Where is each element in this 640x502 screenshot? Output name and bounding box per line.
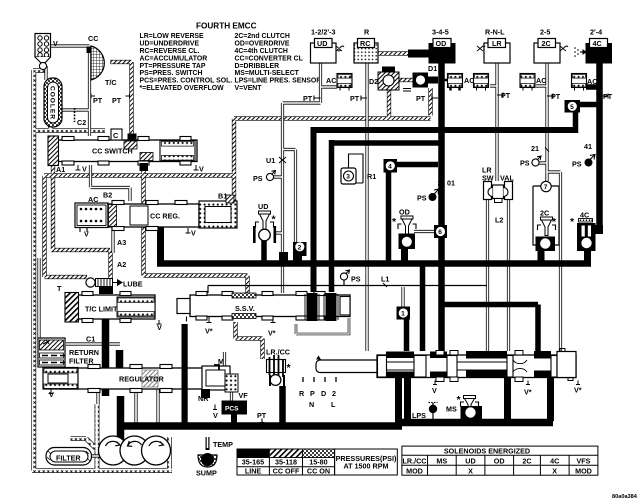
T/C limit top connector bbox=[99, 285, 113, 294]
svg-text:OD: OD bbox=[436, 39, 447, 48]
svg-text:UD=UNDERDRIVE: UD=UNDERDRIVE bbox=[140, 41, 200, 48]
svg-text:LPS=LINE PRES. SENSOR: LPS=LINE PRES. SENSOR bbox=[235, 78, 322, 85]
waist lines bbox=[387, 360, 527, 372]
dribbler D1 bbox=[403, 64, 438, 91]
svg-text:FOURTH EMCC: FOURTH EMCC bbox=[196, 22, 257, 31]
node 4 bbox=[384, 159, 398, 173]
overflow 4C bbox=[570, 211, 603, 252]
svg-text:REGULATOR: REGULATOR bbox=[119, 375, 165, 384]
overflow OD bbox=[392, 208, 416, 250]
svg-text:N: N bbox=[309, 400, 314, 409]
svg-text:LR./CC: LR./CC bbox=[403, 456, 427, 465]
wire thin casing bbox=[39, 46, 561, 456]
svg-text:V: V bbox=[199, 165, 204, 174]
PS L1 (open) bbox=[340, 270, 389, 287]
return filter bbox=[38, 338, 99, 367]
svg-text:T: T bbox=[57, 284, 62, 293]
svg-text:AC: AC bbox=[587, 77, 597, 86]
svg-text:PT: PT bbox=[551, 92, 561, 101]
body bbox=[108, 204, 199, 227]
svg-text:P: P bbox=[310, 389, 315, 398]
wire regulator feeds bbox=[106, 313, 121, 440]
stem bbox=[316, 360, 380, 373]
svg-text:UD: UD bbox=[317, 39, 327, 48]
svg-text:COOLER: COOLER bbox=[49, 86, 56, 119]
svg-text:CC SWITCH: CC SWITCH bbox=[92, 147, 133, 156]
solenoid UD bbox=[311, 28, 345, 64]
svg-text:V*: V* bbox=[268, 329, 276, 338]
node 5 bbox=[565, 100, 581, 113]
spools bbox=[88, 365, 172, 393]
lube dribbler bbox=[57, 278, 143, 293]
hatched end box B1 bbox=[199, 201, 237, 228]
svg-text:A3: A3 bbox=[117, 238, 126, 247]
svg-text:V: V bbox=[432, 386, 437, 395]
svg-text:AC: AC bbox=[464, 76, 474, 85]
svg-text:CC REG.: CC REG. bbox=[150, 212, 180, 221]
dotted spring right bbox=[117, 297, 155, 317]
svg-text:4C=4th CLUTCH: 4C=4th CLUTCH bbox=[235, 48, 288, 55]
svg-text:CC ON: CC ON bbox=[307, 467, 330, 476]
pump circles bbox=[99, 436, 171, 465]
right end block bbox=[557, 352, 576, 378]
accumulator UD bbox=[326, 74, 352, 91]
T/C LIMIT valve bbox=[65, 292, 162, 333]
svg-text:A2: A2 bbox=[117, 260, 126, 269]
svg-text:V=VENT: V=VENT bbox=[235, 85, 263, 92]
svg-text:OD=OVERDRIVE: OD=OVERDRIVE bbox=[235, 41, 290, 48]
svg-text:R1: R1 bbox=[367, 172, 376, 181]
wire manual valve feeds bbox=[407, 263, 539, 351]
AC chamber bbox=[75, 203, 108, 228]
svg-text:V: V bbox=[213, 411, 218, 420]
svg-text:D1: D1 bbox=[428, 64, 437, 73]
svg-text:1: 1 bbox=[401, 311, 405, 318]
svg-text:AT 1500 RPM: AT 1500 RPM bbox=[343, 462, 388, 471]
C2 tap bbox=[75, 94, 130, 128]
svg-text:PT: PT bbox=[501, 91, 511, 100]
accumulator OD bbox=[441, 74, 474, 91]
svg-text:T/C: T/C bbox=[105, 78, 117, 87]
wire suction casing bbox=[32, 70, 172, 472]
dotted left chamber bbox=[43, 368, 78, 390]
svg-text:PCS=PRES. CONTROL SOL.: PCS=PRES. CONTROL SOL. bbox=[140, 78, 233, 85]
wire SSV left drop bbox=[231, 412, 237, 423]
svg-text:X: X bbox=[468, 466, 473, 475]
svg-text:7: 7 bbox=[544, 184, 548, 191]
svg-text:2'-4: 2'-4 bbox=[590, 28, 602, 37]
svg-text:LUBE: LUBE bbox=[123, 280, 143, 289]
svg-text:PT: PT bbox=[93, 96, 103, 105]
wire CC REG drop bbox=[157, 227, 164, 262]
svg-text:6: 6 bbox=[438, 229, 442, 236]
dribbler D2 bbox=[369, 67, 399, 91]
vent bbox=[186, 228, 191, 233]
svg-text:01: 01 bbox=[447, 179, 455, 188]
svg-text:21: 21 bbox=[531, 144, 539, 153]
svg-text:VF: VF bbox=[239, 391, 249, 400]
pipe RC to OD black bbox=[408, 50, 430, 58]
svg-text:V*: V* bbox=[205, 327, 213, 336]
svg-text:2C: 2C bbox=[542, 39, 551, 48]
svg-text:OD: OD bbox=[494, 456, 505, 465]
svg-text:MOD: MOD bbox=[575, 466, 592, 475]
svg-text:PT=PRESSURE TAP: PT=PRESSURE TAP bbox=[140, 63, 206, 70]
svg-text:CC=CONVERTER CL: CC=CONVERTER CL bbox=[235, 55, 303, 62]
hatched plug segments bbox=[124, 141, 137, 149]
lands bbox=[378, 356, 558, 378]
svg-text:SUMP: SUMP bbox=[196, 469, 217, 478]
svg-text:LINE: LINE bbox=[245, 467, 262, 476]
svg-text:2C: 2C bbox=[522, 456, 531, 465]
svg-text:CC: CC bbox=[88, 34, 98, 43]
svg-text:PT: PT bbox=[603, 92, 613, 101]
svg-text:TEMP: TEMP bbox=[213, 440, 233, 449]
svg-text:L: L bbox=[331, 400, 336, 409]
svg-text:LR=LOW REVERSE: LR=LOW REVERSE bbox=[140, 33, 205, 40]
wire OD overflow drop bbox=[401, 246, 408, 262]
overflow MS bbox=[446, 394, 482, 420]
wire below valve bbox=[399, 378, 551, 424]
filter bbox=[46, 448, 92, 466]
svg-text:41: 41 bbox=[584, 142, 592, 151]
svg-text:4C: 4C bbox=[550, 456, 559, 465]
accumulator 2C bbox=[520, 74, 546, 91]
svg-text:2C: 2C bbox=[540, 209, 549, 218]
svg-text:R-N-L: R-N-L bbox=[485, 28, 505, 37]
svg-text:MS=MULTI-SELECT: MS=MULTI-SELECT bbox=[235, 70, 300, 77]
svg-text:PS: PS bbox=[253, 174, 263, 183]
svg-text:2: 2 bbox=[332, 389, 336, 398]
svg-text:PS: PS bbox=[417, 194, 427, 203]
svg-text:PT: PT bbox=[350, 94, 360, 103]
C box bbox=[128, 134, 137, 142]
svg-text:PT: PT bbox=[303, 94, 313, 103]
wire 4box bbox=[389, 165, 439, 263]
svg-text:RC=REVERSE CL.: RC=REVERSE CL. bbox=[140, 48, 200, 55]
svg-text:5: 5 bbox=[570, 104, 574, 111]
svg-text:S.S.V.: S.S.V. bbox=[235, 304, 255, 313]
svg-text:35-165: 35-165 bbox=[242, 458, 264, 467]
vents bbox=[76, 165, 81, 170]
svg-text:15-80: 15-80 bbox=[309, 458, 327, 467]
torque converter T/C bbox=[87, 34, 117, 87]
LPS sensor bbox=[412, 403, 438, 421]
svg-text:V: V bbox=[84, 230, 89, 239]
small tabs bbox=[436, 351, 523, 382]
svg-text:PS: PS bbox=[351, 275, 361, 284]
svg-text:2-5: 2-5 bbox=[540, 28, 550, 37]
PS 4C (filled) bbox=[572, 142, 601, 169]
node 6 bbox=[434, 225, 447, 238]
junction blob bbox=[279, 252, 288, 264]
svg-text:V*: V* bbox=[574, 386, 582, 395]
spool tabs bbox=[62, 137, 191, 166]
wire 5box links bbox=[576, 87, 600, 133]
sump + temp bbox=[196, 437, 233, 478]
svg-text:OD: OD bbox=[399, 208, 410, 217]
black bottom bands bbox=[386, 372, 414, 379]
svg-text:3-4-5: 3-4-5 bbox=[432, 28, 449, 37]
solenoids energized table bbox=[402, 446, 598, 475]
svg-text:V*: V* bbox=[524, 388, 532, 397]
solenoid 4C bbox=[574, 28, 612, 64]
svg-text:D2: D2 bbox=[369, 77, 378, 86]
svg-text:FILTER: FILTER bbox=[56, 454, 81, 463]
node 7 bbox=[533, 181, 559, 245]
solenoid 2C bbox=[534, 28, 568, 64]
svg-text:E: E bbox=[182, 324, 187, 333]
svg-text:PS: PS bbox=[572, 160, 582, 169]
cooler bbox=[44, 78, 62, 127]
wire bus C y263 bbox=[157, 260, 591, 267]
svg-text:PS=PRES. SWITCH: PS=PRES. SWITCH bbox=[140, 70, 203, 77]
svg-text:D=DRIBBLER: D=DRIBBLER bbox=[235, 63, 280, 70]
svg-text:AC: AC bbox=[536, 76, 546, 85]
svg-text:V: V bbox=[82, 165, 87, 174]
svg-text:SOLENOIDS ENERGIZED: SOLENOIDS ENERGIZED bbox=[444, 447, 530, 456]
svg-text:CC OFF: CC OFF bbox=[273, 467, 300, 476]
svg-text:R: R bbox=[364, 28, 370, 37]
left hatch block bbox=[48, 136, 59, 166]
svg-text:C: C bbox=[113, 131, 118, 140]
dotted chamber right bbox=[160, 141, 195, 162]
right extension bbox=[202, 366, 230, 390]
solenoid LR bbox=[477, 28, 510, 64]
gear indicator bbox=[303, 377, 336, 382]
svg-text:2C=2nd CLUTCH: 2C=2nd CLUTCH bbox=[235, 33, 290, 40]
svg-text:MS: MS bbox=[446, 405, 457, 414]
svg-text:U1: U1 bbox=[266, 156, 275, 165]
svg-text:3: 3 bbox=[346, 174, 350, 181]
wire L1 single thin bbox=[208, 280, 487, 421]
svg-text:PT: PT bbox=[416, 94, 426, 103]
svg-text:B2: B2 bbox=[103, 191, 112, 200]
svg-text:2: 2 bbox=[298, 244, 302, 251]
svg-text:LPS: LPS bbox=[412, 411, 426, 420]
svg-text:MS: MS bbox=[436, 456, 447, 465]
svg-text:C1: C1 bbox=[86, 335, 95, 344]
black top bands bbox=[386, 352, 414, 359]
svg-text:35-118: 35-118 bbox=[275, 458, 297, 467]
svg-text:T/C LIMIT: T/C LIMIT bbox=[85, 305, 118, 314]
svg-text:LR: LR bbox=[492, 39, 502, 48]
node 3 bbox=[341, 154, 376, 184]
solenoid RC bbox=[354, 28, 378, 64]
svg-text:PCS: PCS bbox=[225, 406, 239, 413]
wire bus A y130 bbox=[314, 127, 577, 292]
svg-text:V: V bbox=[191, 229, 196, 238]
wire bus D bottom bbox=[119, 423, 553, 427]
PT taps top row bbox=[314, 93, 608, 101]
svg-text:D: D bbox=[321, 389, 326, 398]
svg-text:UD: UD bbox=[258, 202, 268, 211]
accumulator LR bbox=[474, 74, 489, 91]
vent stack bbox=[35, 34, 58, 70]
node 1 bbox=[397, 307, 411, 320]
overflow UD bbox=[253, 202, 277, 243]
accumulator 4C bbox=[572, 74, 598, 91]
svg-text:AC=ACCUMULATOR: AC=ACCUMULATOR bbox=[140, 55, 208, 62]
svg-text:MOD: MOD bbox=[406, 466, 423, 475]
wire UD ball drop bbox=[261, 240, 267, 262]
svg-text:AC: AC bbox=[326, 76, 336, 85]
hatched caps around label bbox=[232, 293, 256, 298]
svg-text:1-2/2'-3: 1-2/2'-3 bbox=[311, 28, 335, 37]
svg-text:A1: A1 bbox=[56, 165, 65, 174]
svg-text:X: X bbox=[552, 466, 557, 475]
PS 2C (open) bbox=[520, 144, 549, 168]
PS OD (filled) bbox=[417, 179, 455, 203]
svg-text:V: V bbox=[53, 39, 58, 48]
svg-text:L1: L1 bbox=[381, 275, 389, 284]
wire hatched: CC network casing bbox=[44, 54, 431, 360]
wire OD rail bbox=[438, 63, 445, 351]
overflow 2C bbox=[536, 209, 558, 252]
wire 2C overflow drop bbox=[541, 250, 588, 262]
svg-text:80a0a384: 80a0a384 bbox=[612, 494, 638, 500]
wire PCS riser bbox=[279, 386, 286, 424]
U1 break bbox=[266, 156, 286, 165]
wire bus B y143 bbox=[332, 140, 442, 292]
svg-text:PS: PS bbox=[520, 159, 530, 168]
svg-text:*=ELEVATED OVERFLOW: *=ELEVATED OVERFLOW bbox=[140, 85, 225, 92]
svg-text:C2: C2 bbox=[77, 118, 86, 127]
body bbox=[377, 355, 576, 378]
PS U1 (open) bbox=[253, 171, 276, 184]
svg-text:L2: L2 bbox=[495, 216, 503, 225]
svg-text:PT: PT bbox=[112, 96, 122, 105]
svg-text:4C: 4C bbox=[593, 39, 602, 48]
svg-text:R: R bbox=[299, 389, 305, 398]
wire 4C rail bbox=[596, 63, 603, 233]
node 2 bbox=[293, 242, 307, 264]
pressure table bbox=[237, 449, 335, 475]
svg-text:VFS: VFS bbox=[577, 456, 591, 465]
svg-text:RC: RC bbox=[360, 39, 370, 48]
pressures box bbox=[335, 449, 398, 475]
solenoid OD bbox=[429, 28, 456, 64]
svg-text:4: 4 bbox=[388, 163, 392, 170]
svg-text:UD: UD bbox=[465, 456, 475, 465]
